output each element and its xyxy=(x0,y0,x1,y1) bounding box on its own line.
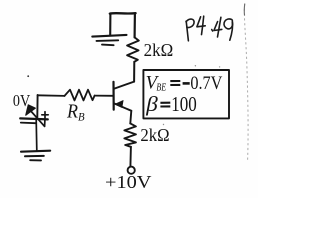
resistor RC (collector 2k) zigzag xyxy=(127,37,139,61)
wire: diode to lower ground stem xyxy=(35,120,38,151)
svg-text:2kΩ: 2kΩ xyxy=(140,125,169,145)
transistor Q1 collector lead xyxy=(114,82,134,89)
label VBE = -0.7V xyxy=(146,73,223,94)
diode D1 cathode bar xyxy=(20,118,48,119)
parameter box xyxy=(143,70,229,118)
wire: top node down to resistor RC xyxy=(134,13,136,37)
scan speck xyxy=(195,65,196,66)
wire: RC bottom to collector corner xyxy=(133,62,135,82)
diode D1 diagonal stroke with hook xyxy=(30,110,45,127)
scan speck xyxy=(27,75,29,77)
ground G1 (top) xyxy=(92,35,126,45)
diode D1 second bar stroke xyxy=(21,122,36,125)
scan speck xyxy=(219,66,220,67)
resistor RE (emitter 2k) zigzag xyxy=(124,123,135,146)
diode D1 triangle (filled) xyxy=(26,105,36,115)
wire: base wire from input corner to RB xyxy=(38,94,65,97)
plus sign annotation xyxy=(42,112,48,118)
scan artifact right edge xyxy=(244,4,248,160)
svg-text:β: β xyxy=(145,92,158,116)
wire: RB to base xyxy=(95,95,113,97)
svg-text:B: B xyxy=(78,110,85,124)
svg-text:+10V: +10V xyxy=(105,172,152,192)
scan artifact right edge top hook xyxy=(243,4,246,16)
svg-text:BE: BE xyxy=(156,82,166,94)
resistor RB zigzag xyxy=(65,90,95,101)
wire: RE to supply terminal xyxy=(129,147,132,167)
wire: emitter down to resistor RE xyxy=(130,111,131,124)
wire: top node horizontal segment xyxy=(110,12,136,15)
wire: input corner down to diode xyxy=(36,95,38,118)
scan speck xyxy=(163,124,164,125)
terminal circle (+10V supply) xyxy=(128,167,135,174)
transistor Q1 emitter lead xyxy=(115,104,132,111)
wire: vertical drop to top ground xyxy=(109,13,111,35)
svg-text:0V: 0V xyxy=(13,91,30,110)
handwritten label P4.49 xyxy=(186,16,233,41)
svg-text:R: R xyxy=(66,101,78,123)
svg-text:100: 100 xyxy=(171,92,197,116)
transistor Q1 base bar xyxy=(112,82,114,110)
transistor Q1 emitter arrow (PNP, points to base bar) xyxy=(115,100,123,107)
ground G2 (below diode) xyxy=(21,151,50,161)
svg-text:0.7V: 0.7V xyxy=(190,73,222,94)
label RB xyxy=(66,101,85,124)
label beta = 100 xyxy=(145,92,196,116)
svg-text:2kΩ: 2kΩ xyxy=(144,40,174,60)
